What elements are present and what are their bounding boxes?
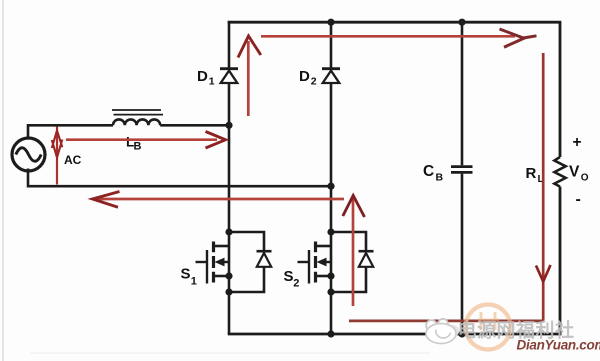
current arrow down through RL <box>536 53 551 321</box>
svg-text:-: - <box>576 191 581 208</box>
MOSFET Q1 (S1) <box>196 242 230 284</box>
right rail upper wire <box>559 22 562 157</box>
svg-text:+: + <box>573 134 582 151</box>
svg-text:D: D <box>299 68 310 85</box>
wire AC bottom rail to node B <box>28 169 331 187</box>
MOSFET Q2 (S2) <box>298 242 332 284</box>
wire AC top to inductor <box>28 125 113 139</box>
capacitor CB lower wire <box>461 174 464 334</box>
capacitor CB plates <box>451 167 473 173</box>
S1 lower junction dot <box>225 288 232 295</box>
svg-text:S: S <box>181 266 191 283</box>
watermark orange seal <box>466 305 511 350</box>
svg-text:V: V <box>569 164 580 181</box>
svg-text:2: 2 <box>311 76 317 88</box>
diode D1 <box>220 69 238 83</box>
label VO <box>569 164 589 184</box>
wire D2 anode through node B down to S2 <box>330 83 333 334</box>
label D2 <box>299 68 317 88</box>
body diode D of S2 <box>359 251 374 267</box>
svg-text:S: S <box>284 268 294 285</box>
current return arrow to AC <box>93 192 345 208</box>
S1 drain junction dot <box>225 228 232 235</box>
bottom faint artifact line <box>30 353 430 354</box>
current arrow up through S2 <box>343 196 365 307</box>
wire D1 cathode to top rail <box>228 21 231 68</box>
current arrow along top rail <box>261 29 537 47</box>
top rail junction dot at CB leg <box>458 19 465 26</box>
svg-text:2: 2 <box>293 278 299 290</box>
S1 source junction dot <box>225 272 232 279</box>
current arrow through LB <box>66 132 226 149</box>
svg-text:R: R <box>526 165 537 182</box>
wire D2 cathode to top rail <box>330 21 333 68</box>
current arrow through D1 <box>238 36 261 116</box>
wire inductor to node A <box>160 124 229 127</box>
watermark panda icon <box>426 319 459 344</box>
node A junction dot <box>225 122 232 129</box>
body diode of S2 branch wires <box>331 232 366 292</box>
body diode of S1 branch wires <box>229 232 264 292</box>
resistor RL zigzag <box>554 157 565 187</box>
top rail wire <box>228 21 562 24</box>
svg-text:DianYuan.com: DianYuan.com <box>517 338 600 353</box>
svg-text:AC: AC <box>64 153 82 167</box>
label S1 <box>181 266 197 288</box>
diode D2 <box>322 69 340 83</box>
label D1 <box>197 68 215 88</box>
S2 source junction dot <box>327 272 334 279</box>
wire D1 anode through node A down to S1 <box>228 83 231 334</box>
capacitor CB upper wire <box>461 21 464 165</box>
label S2 <box>284 268 300 290</box>
svg-text:D: D <box>197 68 208 85</box>
bottom rail junction dot at S2 leg <box>327 330 334 337</box>
label LB <box>126 135 142 153</box>
body diode D of S1 <box>257 251 272 267</box>
svg-text:B: B <box>436 172 444 184</box>
AC source V1 <box>12 138 45 171</box>
svg-text:B: B <box>134 141 142 153</box>
right rail lower wire <box>559 187 562 336</box>
inductor LB core bars <box>112 110 163 115</box>
node B junction dot <box>327 183 334 190</box>
svg-text:O: O <box>581 173 589 184</box>
inductor LB coils <box>113 119 160 125</box>
top rail junction dot at D2 leg <box>327 19 334 26</box>
current return line bottom <box>349 319 544 322</box>
label CB <box>423 163 444 184</box>
current arrow AC bidirectional <box>52 127 63 185</box>
svg-text:C: C <box>423 163 434 180</box>
S2 drain junction dot <box>327 228 334 235</box>
svg-text:1: 1 <box>191 276 197 288</box>
S2 lower junction dot <box>327 288 334 295</box>
svg-text:1: 1 <box>209 76 215 88</box>
label RL <box>526 165 545 185</box>
bottom rail wire <box>228 333 562 336</box>
left edge border line <box>2 0 4 361</box>
bottom rail junction dot at CB leg <box>458 330 465 337</box>
